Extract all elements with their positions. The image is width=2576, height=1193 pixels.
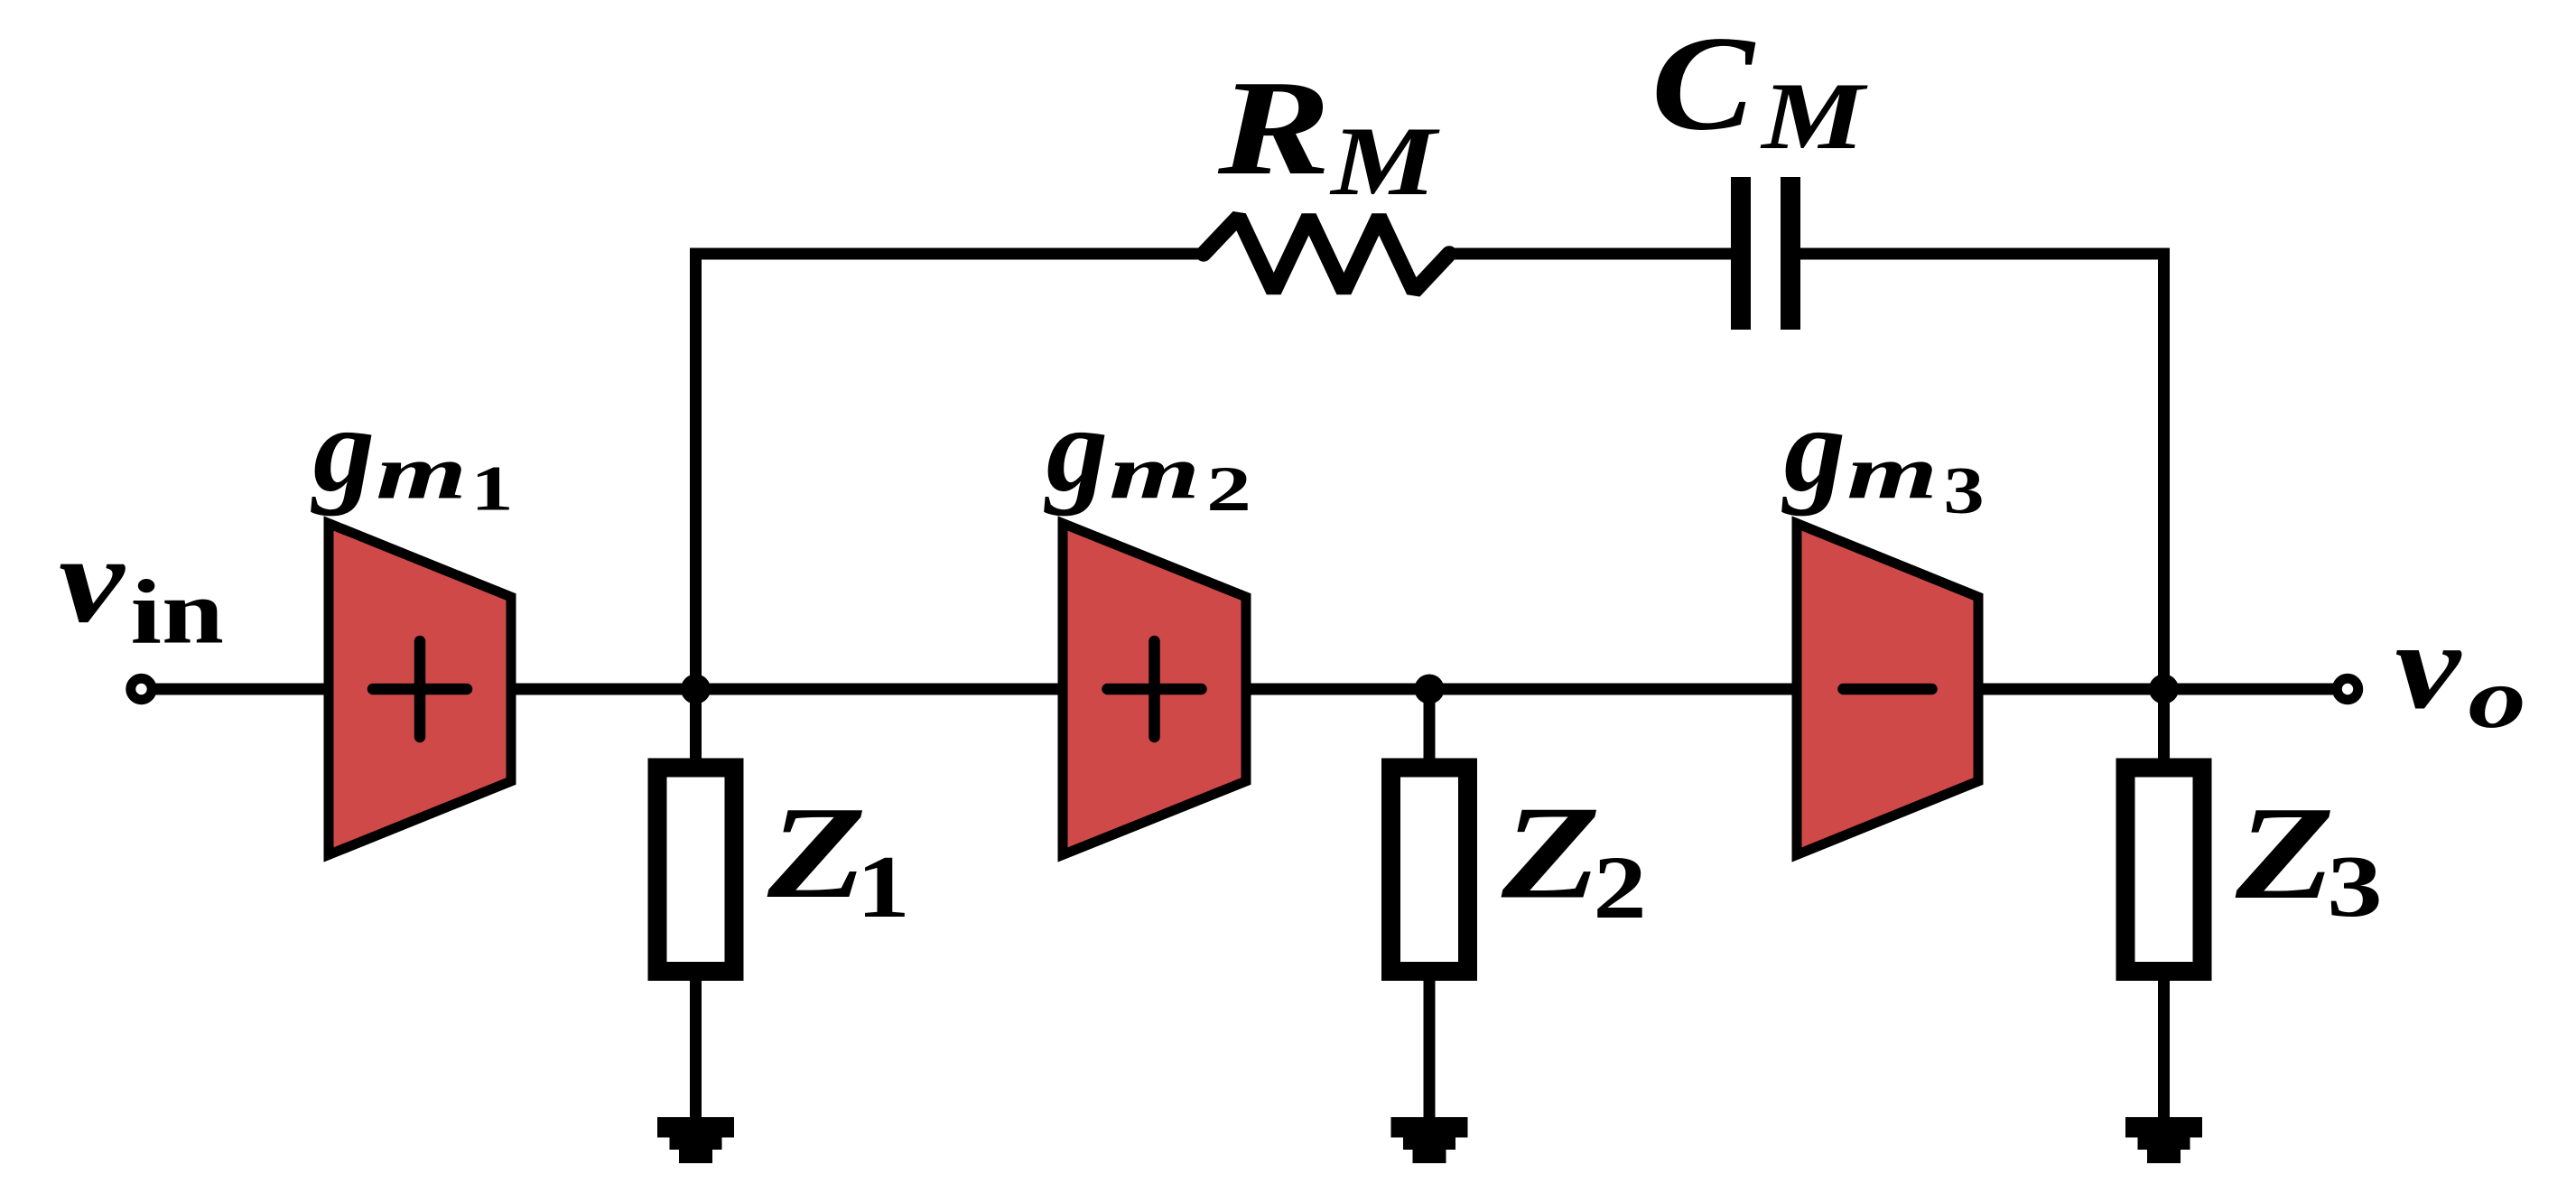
plus sign inside gm1 [373, 641, 467, 737]
node vo (junction dot after gm3) [2149, 675, 2179, 704]
svg-text:v: v [2395, 596, 2462, 734]
label Z2 [1501, 778, 1647, 937]
ground (below Z3) [2125, 1117, 2202, 1163]
svg-text:Z: Z [767, 779, 867, 926]
svg-text:2: 2 [1593, 837, 1647, 937]
label vin [59, 510, 224, 663]
impedance Z2 (box) [1391, 768, 1468, 972]
label gm3 [1781, 382, 1985, 527]
svg-text:m: m [376, 429, 467, 515]
svg-text:2: 2 [1206, 453, 1251, 525]
svg-text:g: g [1044, 382, 1108, 517]
svg-text:Z: Z [1501, 778, 1601, 927]
svg-text:g: g [1781, 382, 1846, 517]
svg-text:g: g [311, 382, 375, 517]
svg-text:R: R [1217, 52, 1331, 203]
label CM [1651, 8, 1868, 169]
transconductor gm3 (trapezoid) [1797, 524, 1978, 855]
svg-text:v: v [59, 510, 126, 648]
svg-text:3: 3 [2327, 837, 2383, 935]
svg-text:m: m [1846, 429, 1938, 514]
label gm2 [1044, 382, 1251, 524]
label Z3 [2235, 779, 2383, 935]
svg-text:in: in [131, 561, 224, 663]
svg-text:3: 3 [1943, 453, 1984, 528]
terminal: input open circle [131, 678, 152, 699]
svg-text:1: 1 [857, 838, 910, 937]
wire: stub from mid node down to Z2 [1424, 689, 1436, 763]
impedance Z3 (box) [2125, 768, 2202, 972]
transconductor gm2 (trapezoid) [1063, 524, 1246, 855]
svg-text:M: M [1329, 107, 1440, 216]
svg-text:o: o [2468, 650, 2525, 746]
transconductor gm1 (trapezoid) [329, 524, 511, 855]
node B (junction dot after gm2) [1415, 675, 1445, 704]
wire: right feedback vertical drop at output node [2158, 254, 2170, 763]
wire: Z1 to ground [690, 971, 702, 1120]
svg-text:C: C [1651, 8, 1756, 158]
svg-text:Z: Z [2235, 779, 2335, 927]
svg-text:1: 1 [470, 454, 513, 525]
wire: left feedback vertical drop at node A [690, 254, 702, 763]
label gm1 [311, 382, 514, 524]
terminal: output open circle [2337, 678, 2357, 699]
capacitor CM [1741, 177, 1790, 330]
wire: top feedback horizontal segment right [1799, 254, 2164, 259]
ground (below Z1) [657, 1117, 734, 1163]
resistor RM [1204, 217, 1449, 292]
wire: top feedback horizontal segment middle (resistor to capacitor) [1449, 248, 1732, 260]
wire: Z3 to ground [2158, 971, 2170, 1120]
svg-text:M: M [1760, 63, 1868, 169]
svg-text:m: m [1109, 429, 1200, 514]
plus sign inside gm2 [1108, 641, 1202, 737]
node A (junction dot after gm1) [681, 675, 711, 704]
minus sign inside gm3 [1844, 684, 1932, 695]
wire: top feedback horizontal segment left [696, 254, 1204, 259]
label RM [1217, 52, 1440, 216]
wire: main horizontal wire vin to vo [155, 684, 2333, 695]
ground (below Z2) [1391, 1117, 1468, 1163]
wire: Z2 to ground [1424, 971, 1436, 1120]
label Z1 [767, 779, 910, 936]
label vo [2395, 596, 2525, 746]
impedance Z1 (box) [657, 768, 734, 972]
